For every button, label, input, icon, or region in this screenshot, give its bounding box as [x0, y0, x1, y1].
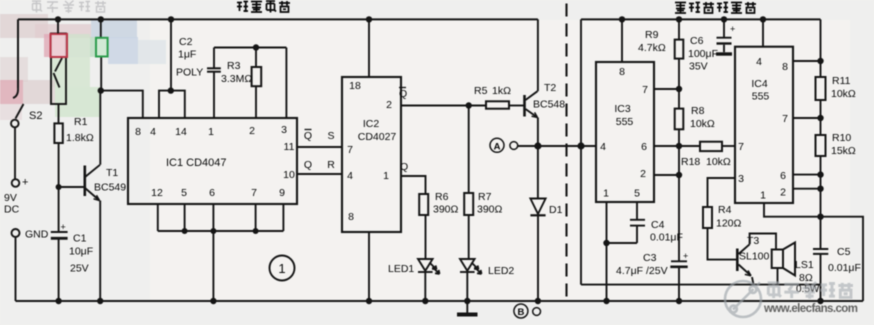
label LS1 8Ω [795, 259, 820, 295]
svg-text:6: 6 [641, 141, 647, 153]
svg-text:LED1: LED1 [388, 263, 414, 275]
svg-text:Q: Q [304, 130, 312, 142]
wire R11 to R10 [820, 100, 822, 135]
svg-text:C5: C5 [837, 246, 851, 258]
wire IC4 pin8 [793, 60, 821, 62]
label IC4 555 [751, 78, 769, 103]
wire R18 to IC4 [722, 145, 735, 147]
svg-text:CD4027: CD4027 [358, 131, 397, 143]
terminal + 9V DC [12, 179, 20, 187]
label T1 BC549 [94, 167, 126, 194]
label R9 4.7kΩ [638, 29, 666, 54]
svg-text:5: 5 [181, 187, 187, 199]
green highlight box [96, 38, 108, 57]
svg-text:2: 2 [249, 125, 255, 137]
wire IC2 pin8 to ground [368, 232, 370, 301]
svg-text:R8: R8 [691, 105, 705, 117]
svg-text:11: 11 [284, 141, 295, 153]
label C3 4.7μF/25V [616, 251, 688, 277]
wire net to pin3 [285, 48, 287, 119]
dashed divider [565, 4, 567, 298]
wire IC4 pin2 [793, 188, 821, 190]
red highlight box [51, 34, 68, 57]
label R5 1kΩ [474, 85, 511, 97]
wire top V+ rail [18, 18, 538, 20]
svg-text:8: 8 [782, 61, 788, 73]
wire IC3 pin6 [654, 145, 700, 147]
svg-text:1: 1 [383, 170, 389, 182]
wire IC4 top stub [762, 19, 764, 46]
label R11 10kΩ [831, 75, 856, 100]
speaker LS1 [772, 243, 795, 285]
svg-text:R6: R6 [435, 191, 449, 203]
svg-text:1.8kΩ: 1.8kΩ [66, 132, 94, 144]
label IC3 555 [614, 103, 633, 128]
ground bar [457, 313, 478, 317]
label R4 120Ω [716, 204, 742, 230]
label 1 [278, 261, 285, 276]
svg-text:7: 7 [782, 113, 788, 125]
svg-text:IC1 CD4047: IC1 CD4047 [166, 157, 227, 169]
wire IC1 pin11 to IC2 S [298, 146, 342, 148]
svg-text:DC: DC [4, 204, 20, 216]
svg-text:18: 18 [349, 80, 361, 92]
wire IC1 bus to ground [212, 231, 214, 301]
svg-text:100μF: 100μF [688, 48, 718, 60]
svg-text:2: 2 [640, 168, 646, 180]
svg-text:8: 8 [619, 66, 625, 78]
green component VR [100, 19, 102, 90]
svg-text:9: 9 [279, 187, 285, 199]
wire IC1 bottom stubs [158, 204, 284, 231]
LED2 [460, 259, 482, 274]
wire chain to C5 [820, 156, 822, 249]
switch S2 [11, 88, 24, 127]
wire LED2 to ground [466, 272, 468, 313]
label R18 10kΩ [681, 156, 731, 168]
svg-text:R10: R10 [832, 132, 851, 144]
diode D1 [530, 146, 545, 301]
wire IC3 top stub [621, 19, 623, 62]
label C1 + 10μF 25V [61, 222, 94, 275]
svg-text:6: 6 [780, 170, 786, 182]
junction dots top rail [55, 16, 766, 22]
label R3 3.3MΩ [221, 60, 252, 85]
label +9V DC [4, 177, 28, 216]
wire x581 drop [580, 19, 582, 284]
svg-text:3: 3 [281, 124, 287, 136]
svg-text:T2: T2 [544, 82, 556, 94]
resistor R10 [816, 135, 826, 156]
node B [514, 304, 541, 318]
svg-text:R11: R11 [832, 75, 851, 87]
svg-text:0.01μF: 0.01μF [828, 262, 861, 274]
svg-text:14: 14 [175, 126, 187, 138]
wire R6 to LED1 [425, 215, 427, 259]
wire IC4 pin1 ground loop [764, 203, 863, 301]
capacitor C3 [670, 175, 687, 301]
svg-text:Q: Q [304, 159, 312, 171]
label Q output [400, 161, 408, 173]
svg-text:IC3: IC3 [614, 103, 631, 115]
op IC2 CD4027 box [342, 77, 401, 232]
label IC3 pins [600, 66, 648, 200]
resistor R5 [486, 101, 509, 108]
svg-text:3.3MΩ: 3.3MΩ [221, 73, 252, 85]
svg-text:4.7kΩ: 4.7kΩ [638, 42, 666, 54]
svg-text:C1: C1 [73, 233, 87, 245]
svg-text:3: 3 [738, 173, 744, 185]
junction dots misc [98, 44, 824, 246]
label A [494, 141, 501, 152]
label IC4 pins [738, 56, 788, 202]
op IC4 555 box [735, 47, 793, 203]
label LED1 [388, 263, 414, 275]
svg-text:2: 2 [780, 187, 786, 199]
wire R5 to T2 base [509, 105, 524, 107]
svg-text:15kΩ: 15kΩ [831, 145, 856, 157]
svg-text:0.01μF: 0.01μF [650, 232, 683, 244]
wire R7 drop [468, 106, 470, 194]
title 喇叭声报警声 [675, 2, 756, 13]
svg-text:390Ω: 390Ω [477, 204, 503, 216]
svg-text:9V: 9V [4, 192, 17, 204]
svg-text:555: 555 [616, 116, 634, 128]
capacitor C2 [207, 48, 221, 119]
wire rail drop x171 [170, 19, 172, 90]
junction dots bottom bus [55, 298, 823, 304]
svg-text:10kΩ: 10kΩ [690, 118, 715, 130]
label S2 [29, 110, 42, 122]
svg-text:6: 6 [209, 187, 215, 199]
watermark mosaic top-left [0, 14, 166, 120]
svg-text:Q: Q [400, 161, 408, 173]
capacitor C4 [607, 202, 646, 301]
svg-text:2: 2 [386, 99, 392, 111]
wire IC1 pin10 to IC2 R [298, 173, 342, 175]
overline Q̄ out [399, 87, 406, 89]
svg-text:+: + [22, 177, 28, 189]
svg-text:Q: Q [399, 88, 407, 100]
resistor R11 [816, 77, 826, 100]
svg-text:C6: C6 [690, 35, 704, 47]
wire S2 to + terminal [14, 127, 16, 179]
capacitor C6 [716, 19, 732, 54]
wire A to IC3 pin4 [518, 145, 596, 147]
svg-text:D1: D1 [549, 204, 563, 216]
LED1 [418, 259, 440, 274]
svg-text:R9: R9 [645, 29, 659, 41]
wire component to R1 [58, 104, 60, 123]
svg-text:T1: T1 [106, 167, 118, 179]
label LED2 [488, 265, 514, 277]
wire right chain top [820, 19, 822, 77]
terminal GND [12, 229, 20, 237]
wire IC4 pin7 right [793, 117, 821, 119]
title 控制电路 [237, 1, 290, 13]
wire rail to component [57, 19, 59, 33]
label IC2 CD4027 [358, 118, 397, 143]
resistor R7 [464, 193, 473, 215]
overline on Q̄ [305, 129, 312, 131]
svg-text:4: 4 [600, 141, 606, 153]
label T2 BC548 [533, 82, 565, 111]
label Q̄ output [399, 88, 407, 100]
svg-text:10μF: 10μF [69, 246, 93, 258]
svg-text:+: + [61, 222, 66, 232]
svg-text:1kΩ: 1kΩ [492, 85, 511, 97]
label Q̄ S Q R [304, 130, 335, 171]
label T3 SL100 [739, 235, 770, 263]
wire T3 collector to speaker [750, 234, 776, 250]
op IC3 555 box [596, 62, 654, 202]
wire T1 collector up [99, 91, 101, 165]
svg-text:C2: C2 [179, 36, 193, 48]
svg-text:1μF: 1μF [178, 49, 196, 61]
svg-text:7: 7 [251, 187, 257, 199]
svg-text:R18: R18 [681, 156, 700, 168]
svg-text:8: 8 [348, 211, 354, 223]
svg-text:POLY: POLY [176, 67, 203, 79]
transistor T1 BC549 [59, 165, 100, 201]
svg-text:www.elecfans.com: www.elecfans.com [763, 303, 858, 315]
label IC1 CD4047 [166, 157, 227, 169]
wire emitter return [581, 284, 821, 286]
label B [517, 307, 524, 318]
label D1 [549, 204, 563, 216]
label R10 15kΩ [831, 132, 856, 157]
wire bridge pins 14-1 [159, 91, 185, 118]
svg-text:5: 5 [634, 188, 640, 200]
svg-text:4: 4 [756, 56, 762, 68]
svg-text:R3: R3 [227, 60, 241, 72]
resistor R8 [675, 89, 684, 175]
svg-text:IC4: IC4 [751, 78, 768, 90]
svg-text:1: 1 [760, 190, 766, 202]
svg-text:R4: R4 [718, 204, 732, 216]
label IC1 pins bottom [151, 187, 285, 199]
resistor R1 [54, 123, 62, 143]
wire T2 emitter down [537, 118, 539, 147]
svg-text:C3: C3 [643, 252, 657, 264]
resistor R9 [675, 19, 684, 89]
wire IC2 top stub [368, 19, 370, 77]
wire T2 collector to rail [537, 19, 539, 91]
svg-text:S2: S2 [29, 110, 42, 122]
svg-text:BC549: BC549 [94, 182, 126, 194]
svg-text:LED2: LED2 [488, 265, 514, 277]
transistor T2 BC548 [525, 91, 538, 117]
svg-text:10kΩ: 10kΩ [706, 156, 731, 168]
label C5 0.01μF [828, 246, 861, 274]
label C4 0.01μF [650, 219, 683, 244]
label IC1 pins right [283, 141, 295, 181]
resistor R3 [252, 48, 262, 119]
svg-text:R7: R7 [478, 191, 492, 203]
svg-text:+: + [730, 24, 735, 34]
svg-text:25V: 25V [70, 263, 89, 275]
wire IC3 pin2 [654, 174, 679, 176]
svg-text:4.7μF /25V: 4.7μF /25V [616, 265, 668, 277]
resistor R4 [703, 178, 736, 260]
label R1 1.8kΩ [66, 116, 94, 144]
label GND [25, 229, 49, 241]
svg-text:7: 7 [642, 84, 648, 96]
svg-text:7: 7 [738, 141, 744, 153]
watermark bottom right [725, 281, 858, 317]
label C2 1μF POLY [176, 36, 203, 79]
faint watermark text top-left [32, 1, 106, 14]
wire LED1 to bus [424, 272, 426, 301]
svg-text:120Ω: 120Ω [716, 218, 742, 230]
label C6 100μF 35V [688, 24, 735, 73]
svg-text:A: A [494, 141, 501, 152]
svg-text:R: R [327, 159, 335, 171]
wire IC3 pin7 [654, 88, 679, 90]
svg-text:4: 4 [347, 170, 353, 182]
wire GND to bus [15, 237, 17, 301]
svg-text:390Ω: 390Ω [433, 204, 459, 216]
svg-text:12: 12 [151, 187, 163, 199]
svg-text:LS1: LS1 [795, 259, 814, 271]
svg-text:1: 1 [278, 261, 285, 276]
svg-text:4: 4 [150, 126, 156, 138]
wire R7 to LED2 [468, 215, 470, 259]
label IC2 pins [347, 80, 392, 223]
capacitor C5 [813, 249, 828, 301]
wire Q to R6 [401, 176, 426, 194]
label R8 10kΩ [690, 105, 715, 130]
wire IC4 pin6 [793, 174, 821, 176]
node IC1 bus junctions [182, 228, 259, 234]
op IC1 CD4047 box [128, 118, 297, 204]
svg-text:C4: C4 [651, 219, 665, 231]
wire C2/R3 net [214, 47, 286, 49]
svg-text:1: 1 [603, 188, 609, 200]
svg-text:555: 555 [752, 91, 770, 103]
capacitor C1 [51, 232, 68, 301]
node A [490, 138, 518, 152]
label R6 390Ω [433, 191, 459, 216]
svg-text:7: 7 [347, 144, 353, 156]
wire R1 to base node [58, 143, 60, 232]
wire left rail top [17, 19, 19, 88]
wire pot node to IC1 pin [101, 91, 143, 118]
fuse/relay component with red mark [51, 34, 66, 105]
svg-text:R5: R5 [474, 85, 488, 97]
node T1 base [56, 184, 62, 190]
svg-text:10kΩ: 10kΩ [831, 88, 856, 100]
resistor R6 [419, 194, 428, 215]
wire bottom ground bus [16, 300, 864, 302]
wire Q̄ to R5 [401, 105, 486, 107]
svg-text:S: S [327, 130, 334, 142]
wire T1 emitter down [99, 201, 101, 302]
svg-text:10: 10 [283, 169, 295, 181]
svg-text:SL100: SL100 [739, 251, 770, 263]
resistor R18 [700, 142, 722, 151]
label IC1 pins top [135, 124, 287, 138]
svg-text:8: 8 [135, 126, 141, 138]
svg-text:35V: 35V [689, 61, 708, 73]
svg-text:GND: GND [25, 229, 49, 241]
label R7 390Ω [477, 191, 503, 216]
transistor T3 SL100 [737, 244, 753, 284]
svg-text:R1: R1 [74, 116, 88, 128]
svg-text:+: + [683, 251, 688, 261]
svg-text:BC548: BC548 [533, 99, 565, 111]
svg-text:B: B [517, 307, 524, 318]
svg-text:IC2: IC2 [363, 118, 380, 130]
svg-text:1: 1 [208, 126, 214, 138]
node circled 1 [270, 256, 295, 281]
